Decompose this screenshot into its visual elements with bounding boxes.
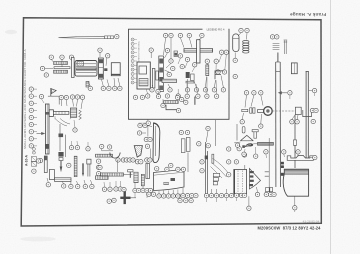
frame border xyxy=(21,18,321,226)
scattered callouts in box xyxy=(178,54,182,58)
dark striped buffer bar xyxy=(258,142,274,145)
extractor small rect xyxy=(291,63,297,74)
callouts under left cluster xyxy=(73,128,77,132)
barrel extension block xyxy=(111,63,120,76)
bottom-left callout row xyxy=(46,183,50,187)
arrow pointing at rail xyxy=(37,132,45,134)
callout bolt xyxy=(98,48,102,52)
housing side bar xyxy=(152,68,155,88)
barrel (long, vertical) xyxy=(276,53,281,188)
svg-text:A-10-A: A-10-A xyxy=(25,155,29,166)
bottom small parts in box xyxy=(194,97,196,105)
callout rod left xyxy=(98,165,102,169)
receiver body xyxy=(75,61,97,77)
leaders up from box bottom row xyxy=(188,76,224,88)
callout spring xyxy=(40,66,44,70)
leaders up xyxy=(47,178,92,184)
leaders down xyxy=(61,99,82,109)
dark blob on pin rod xyxy=(59,134,64,138)
stepped stack part xyxy=(213,173,219,185)
callouts below bolt assembly xyxy=(240,120,244,124)
grip callouts xyxy=(138,123,142,127)
callout bracket xyxy=(313,155,317,159)
tall rail plate left xyxy=(45,104,49,154)
tight margin circles xyxy=(32,148,35,151)
leaders from trio xyxy=(51,60,71,67)
callout xyxy=(67,163,71,167)
leaders xyxy=(135,183,183,198)
svg-text:43-28 85-04: 43-28 85-04 xyxy=(303,219,320,223)
callout arrow xyxy=(288,91,292,95)
extra leader lines bottom area xyxy=(104,181,237,202)
callout rod tip xyxy=(115,34,119,38)
vertical striped spring xyxy=(74,156,77,177)
screw with head xyxy=(49,110,69,117)
capsule pin right of box xyxy=(233,34,239,52)
magazine callout xyxy=(293,206,297,210)
collar on operating rod xyxy=(293,140,296,145)
inner box frame xyxy=(129,29,230,119)
box inner circle row B xyxy=(146,94,150,98)
hammer rod in box xyxy=(162,79,176,82)
leaders up from dense run xyxy=(212,189,233,194)
striped small rod xyxy=(141,174,144,186)
pin with flange xyxy=(252,130,258,139)
callouts above bracket xyxy=(282,150,286,154)
margin check boxes xyxy=(31,157,36,167)
box inner circle row C xyxy=(161,103,165,107)
small arm part left xyxy=(242,145,245,148)
central parts column in box xyxy=(159,56,164,92)
tent base extension xyxy=(234,141,240,144)
bolt handle rod xyxy=(242,109,248,111)
page fold edge line xyxy=(330,0,332,254)
svg-text:Frank A. Hauge: Frank A. Hauge xyxy=(290,12,327,17)
callout below capsule xyxy=(233,58,237,62)
callout row washers xyxy=(70,95,74,99)
arrow to barrel xyxy=(279,92,287,94)
bottom-left column circle xyxy=(38,158,42,162)
dark pawl parts in box xyxy=(186,72,190,78)
callouts in box around housing xyxy=(163,33,167,37)
small coil spring xyxy=(79,110,81,120)
callout near rod xyxy=(264,150,268,154)
striped horizontal rod lower xyxy=(96,176,109,180)
latch rect xyxy=(295,107,301,114)
magazine hatch band xyxy=(284,169,309,174)
svg-text:SMALL ARMS MATERIEL AND MAINTE: SMALL ARMS MATERIEL AND MAINTENANCE CHAR… xyxy=(23,49,27,149)
pin rods down xyxy=(59,124,61,151)
callout right of box xyxy=(233,74,237,78)
mid bottom callout rows xyxy=(133,188,137,192)
twin boxes xyxy=(266,188,270,192)
callout pair under flag xyxy=(59,95,63,99)
sight tent part xyxy=(240,135,253,141)
sear spring rod in box xyxy=(164,101,178,104)
callout below pennant xyxy=(255,192,259,196)
T hammer part xyxy=(128,170,133,172)
callout flag xyxy=(39,94,43,98)
tall bar dark top xyxy=(44,156,47,173)
curved leader fan xyxy=(211,159,231,179)
dark pin with arrow xyxy=(82,163,84,173)
firing pin cluster dark xyxy=(58,152,63,172)
gas blocks on barrel xyxy=(281,162,284,165)
barrel thread marks xyxy=(273,44,280,50)
extra leader lines box interior xyxy=(146,55,226,104)
callout pair above barrel xyxy=(270,35,274,39)
dense bottom callout run xyxy=(204,193,208,197)
bolt handle assembly callout row xyxy=(244,91,248,95)
trigger housing body in box xyxy=(137,62,150,89)
bolt head bar xyxy=(99,58,104,79)
firing pin thin rod xyxy=(284,40,288,54)
leader from box bottom xyxy=(148,119,150,157)
operating handle blade below box xyxy=(153,123,160,163)
vertical leader from box down xyxy=(215,120,217,146)
lower trio xyxy=(178,198,182,202)
callouts above cross xyxy=(178,33,182,37)
rod top callout xyxy=(206,144,210,148)
striped long rod mid xyxy=(101,173,124,176)
coil spring right of box xyxy=(243,41,249,54)
dark blob on rod xyxy=(205,156,208,160)
legend tick lines xyxy=(134,40,137,83)
svg-text:M209SC0W 87/3 12 89Y2 42-24: M209SC0W 87/3 12 89Y2 42-24 xyxy=(257,226,321,231)
recoil spring lower xyxy=(54,70,68,73)
guide rod xyxy=(54,67,70,69)
cam pin part xyxy=(104,68,107,71)
inner box label xyxy=(203,27,229,31)
trigger guard plate trapezoid xyxy=(154,169,185,190)
washer stack xyxy=(70,108,76,117)
ejector triangle with spring blobs xyxy=(245,165,269,195)
small capsule above tent xyxy=(242,127,245,134)
bolt guide plate xyxy=(72,58,75,78)
callouts top-left trio xyxy=(49,55,53,59)
extra leader lines top-left xyxy=(31,91,88,146)
L tube xyxy=(49,170,54,180)
sight flag part xyxy=(48,88,59,105)
dashed leader right xyxy=(272,110,295,112)
callout trio right xyxy=(96,159,100,163)
barrel 2 short xyxy=(306,72,309,161)
leaders in box xyxy=(152,38,171,88)
bracket on barrel2 xyxy=(303,110,312,117)
horn lever (dark) xyxy=(245,143,254,147)
operating rod leader xyxy=(268,138,270,188)
vertical spring in box xyxy=(206,65,209,76)
callouts near plate xyxy=(227,147,231,151)
magazine body xyxy=(283,169,308,196)
callouts right of barrel2 xyxy=(310,108,314,112)
left callout pair lower xyxy=(200,160,204,164)
leaders up from row xyxy=(88,78,120,86)
striped horizontal rod upper xyxy=(96,154,113,157)
bottom circle trio xyxy=(114,187,118,191)
bottom callout row in box xyxy=(185,88,189,92)
small gas part above callout row xyxy=(86,82,89,88)
callout barrel2 xyxy=(312,88,316,92)
floor plate rect with dashed ribs xyxy=(234,170,247,194)
small cluster left of tent xyxy=(146,121,150,125)
capped twin rod xyxy=(87,159,91,164)
leader xyxy=(45,67,53,69)
callout pair xyxy=(237,147,241,151)
cleaning rod xyxy=(59,36,114,39)
dark cross part xyxy=(120,197,130,199)
magazine bracket bar xyxy=(287,155,313,160)
L bracket in box xyxy=(166,105,178,110)
small pin rect xyxy=(212,154,214,163)
left rect pair xyxy=(179,130,183,134)
callout row y160 xyxy=(116,158,120,162)
box inner circle row A xyxy=(150,88,154,92)
callout below springs xyxy=(44,73,48,77)
leader from rod top xyxy=(117,160,119,172)
swooping leaders xyxy=(55,119,70,127)
callouts along plate top xyxy=(155,167,159,171)
side plate part xyxy=(146,164,150,179)
cross screwdriver part in box xyxy=(184,40,213,63)
leader line below rect pair xyxy=(187,153,189,173)
ticks right of column xyxy=(34,89,37,146)
extra bottom callout xyxy=(247,206,251,210)
extra leader lines right side xyxy=(239,93,314,212)
washers xyxy=(250,108,252,113)
smudge top-left xyxy=(5,30,17,34)
twin tall rods xyxy=(205,142,207,196)
callout row under receiver xyxy=(88,86,92,90)
F bracket in box xyxy=(215,71,223,79)
bell cone part xyxy=(134,146,142,158)
hatched bar xyxy=(134,172,138,183)
left column callouts on margin xyxy=(29,87,33,91)
recoil spring upper xyxy=(54,62,68,65)
cross callouts xyxy=(107,199,111,203)
vertical leader left of tent xyxy=(236,124,238,141)
callout cam pin xyxy=(106,54,110,58)
knob handle xyxy=(258,110,265,113)
flat leaf spring xyxy=(55,178,72,182)
svg-text:LEGEND FIG 4: LEGEND FIG 4 xyxy=(207,28,225,32)
trigger guard bow xyxy=(100,144,104,148)
inner box left legend circles xyxy=(131,38,134,84)
operating rod long xyxy=(294,115,296,168)
callout pair above capsule xyxy=(239,28,243,32)
smudge bottom-left xyxy=(20,237,56,242)
